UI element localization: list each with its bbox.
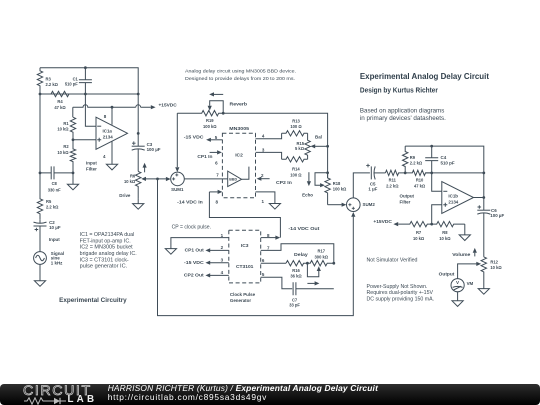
wire R18 to SUM2 <box>328 204 342 206</box>
pin 1 IC3 <box>171 233 229 249</box>
note analog delay description <box>185 69 296 81</box>
label -15 VDC pin3 <box>184 260 205 265</box>
svg-text:R19: R19 <box>206 118 214 123</box>
arrow signal direction echo <box>307 172 311 186</box>
svg-text:510 pF: 510 pF <box>65 82 78 87</box>
wire R2 to ground <box>72 173 74 184</box>
op-amp IC1a <box>96 107 128 164</box>
label C5 polarity <box>366 164 370 168</box>
label R14 <box>290 167 302 178</box>
arrow +15VDC <box>151 105 156 109</box>
svg-text:-14 VDC In: -14 VDC In <box>177 199 203 204</box>
pin 4 IC3 <box>205 270 228 277</box>
svg-text:R12: R12 <box>490 259 498 264</box>
arrow signal direction drive <box>143 163 147 173</box>
pin 8 IC2 <box>209 190 222 205</box>
svg-text:IC3 = CT3101 clock-: IC3 = CT3101 clock- <box>80 257 129 263</box>
node junction IC1a output <box>137 132 140 135</box>
svg-text:Experimental Circuitry: Experimental Circuitry <box>59 297 127 304</box>
note not simulator verified <box>367 257 418 263</box>
arrow into SUM2 bottom <box>351 212 355 217</box>
svg-text:R7: R7 <box>416 230 422 235</box>
svg-text:Input: Input <box>49 237 60 242</box>
wire reverb to SUM1 <box>176 113 178 167</box>
resistor R2 <box>70 140 75 173</box>
node junction R18 wiper rail <box>326 171 329 174</box>
wire R6 to ground <box>137 199 139 204</box>
wire IC1b output <box>474 197 484 199</box>
resistor R9 <box>403 146 408 173</box>
pin 5 IC3 <box>261 272 293 289</box>
node junction output <box>482 196 485 199</box>
resistor R11 <box>385 170 405 175</box>
node junction feedback <box>137 93 140 96</box>
svg-text:2: 2 <box>261 173 264 178</box>
svg-text:2.2 kΩ: 2.2 kΩ <box>386 183 399 188</box>
svg-text:4: 4 <box>103 154 106 159</box>
IC U2 MN3005 box <box>222 133 255 197</box>
svg-text:+15VDC: +15VDC <box>159 103 178 108</box>
wiper R6 <box>141 177 166 181</box>
svg-text:2.2 kΩ: 2.2 kΩ <box>46 205 59 210</box>
capacitor C2 <box>34 220 47 252</box>
wire -14VDC net <box>209 192 280 238</box>
arrow signal direction volume <box>473 248 477 257</box>
svg-text:Power-Supply Not Shown.: Power-Supply Not Shown. <box>367 284 428 290</box>
capacitor C6 <box>477 210 490 257</box>
pin 1 IC2 <box>256 192 275 204</box>
svg-text:IC3: IC3 <box>241 243 249 249</box>
pin 4 IC1a <box>103 154 106 159</box>
svg-text:IC1a: IC1a <box>103 129 113 134</box>
svg-text:1 kHz: 1 kHz <box>51 261 63 266</box>
pin 2 IC2 <box>257 173 270 181</box>
resistor R8 <box>432 221 465 226</box>
svg-text:36 kΩ: 36 kΩ <box>290 274 302 279</box>
node junction R3 bottom <box>39 93 42 96</box>
svg-text:R4: R4 <box>57 99 63 104</box>
label Drive <box>119 193 131 198</box>
label R1 <box>57 121 69 132</box>
title Experimental Analog Delay Circuit <box>360 71 489 81</box>
svg-text:3: 3 <box>221 257 224 262</box>
svg-text:R6: R6 <box>130 173 136 178</box>
wiper R17 <box>307 263 321 277</box>
svg-text:CP1 Out: CP1 Out <box>185 248 205 253</box>
svg-text:R9: R9 <box>410 155 416 160</box>
svg-text:8: 8 <box>104 114 107 119</box>
svg-text:5 kΩ: 5 kΩ <box>295 146 305 151</box>
svg-text:10 kΩ: 10 kΩ <box>439 236 451 241</box>
svg-text:6: 6 <box>262 258 265 263</box>
capacitor C8 <box>40 166 73 179</box>
svg-text:R5: R5 <box>46 199 52 204</box>
label Bal <box>315 135 322 140</box>
wire output node right <box>426 172 484 174</box>
label C6 <box>490 208 504 218</box>
svg-text:Requires dual-polarity +-15V: Requires dual-polarity +-15V <box>367 290 434 296</box>
svg-text:IC2: IC2 <box>235 152 243 158</box>
footer bar <box>0 384 540 405</box>
svg-text:Designed to provide delays fro: Designed to provide delays from 20 to 20… <box>185 76 295 81</box>
pin 3 IC2 <box>256 148 282 160</box>
label C4 <box>441 155 455 165</box>
summer SUM1 <box>171 172 185 186</box>
svg-text:in primary devices' datasheets: in primary devices' datasheets. <box>360 115 446 122</box>
svg-text:100 µF: 100 µF <box>490 213 504 218</box>
svg-text:Bal: Bal <box>315 135 322 140</box>
svg-text:Filter: Filter <box>400 199 411 204</box>
label C6 polarity <box>478 205 482 209</box>
svg-text:33 pF: 33 pF <box>289 303 300 308</box>
wire plus input IC1b <box>432 205 442 224</box>
svg-text:CT3101: CT3101 <box>236 264 254 270</box>
svg-text:5: 5 <box>215 135 218 140</box>
svg-text:8: 8 <box>267 233 270 238</box>
resistor R13 <box>282 131 308 136</box>
svg-text:R8: R8 <box>442 230 448 235</box>
label VM <box>467 281 474 286</box>
label signal source <box>51 251 64 266</box>
wire top rail / feedback net <box>40 68 138 134</box>
svg-text:IC1 = OPA2134PA dual: IC1 = OPA2134PA dual <box>80 232 135 238</box>
arrow into SUM1 top <box>175 167 179 172</box>
label CP2 Out <box>184 273 204 278</box>
label IC1a <box>103 129 114 140</box>
label C2 polarity <box>35 228 39 232</box>
label +15VDC <box>159 103 178 108</box>
svg-text:Clock Pulse: Clock Pulse <box>230 292 256 297</box>
svg-text:Based on application diagrams: Based on application diagrams <box>360 107 444 114</box>
wire source to ground <box>39 264 41 280</box>
node junction R15 wiper rail <box>326 145 329 148</box>
svg-text:brigade analog delay IC.: brigade analog delay IC. <box>80 251 137 257</box>
node junction C4 top <box>430 145 433 148</box>
wiper R15 <box>310 144 327 148</box>
svg-text:BBD: BBD <box>229 177 237 181</box>
svg-text:Input: Input <box>86 160 97 165</box>
label Input Filter <box>86 160 97 171</box>
node junction feedback right <box>482 172 485 175</box>
label C3 polarity <box>132 141 136 145</box>
svg-text:3: 3 <box>262 148 265 153</box>
label R11 <box>386 178 399 189</box>
label IC1b <box>448 194 458 205</box>
svg-text:R13: R13 <box>292 118 300 123</box>
pin 7 IC3 <box>261 244 334 263</box>
svg-text:100 kΩ: 100 kΩ <box>333 187 347 192</box>
pin 4 IC2 <box>256 133 282 139</box>
arrow into SUM1 left <box>166 177 171 181</box>
arrow +15VDC bottom <box>393 222 398 226</box>
svg-text:10 kΩ: 10 kΩ <box>490 265 502 270</box>
node junction R19 wiper <box>222 112 225 115</box>
wire R8 to ground <box>464 224 466 235</box>
svg-text:47 kΩ: 47 kΩ <box>414 183 426 188</box>
svg-text:R1: R1 <box>63 121 69 126</box>
svg-text:FET-input op-amp IC.: FET-input op-amp IC. <box>80 238 131 244</box>
note based on datasheets <box>360 107 446 122</box>
wiper R18 <box>315 173 328 188</box>
ground input source <box>34 281 45 287</box>
node junction C4 bottom <box>430 172 433 175</box>
buffer BBD symbol <box>228 167 249 187</box>
wire dry path to SUM2 <box>158 179 354 316</box>
pin 2 IC3 <box>205 245 228 253</box>
label C7 <box>289 298 300 308</box>
label Output bottom <box>439 272 455 277</box>
CircuitLab logo LAB <box>68 396 98 404</box>
wire SUM2 output <box>353 173 370 198</box>
svg-text:pulse generator IC.: pulse generator IC. <box>80 264 128 270</box>
svg-text:2134: 2134 <box>103 135 113 140</box>
CircuitLab logo text <box>23 386 92 397</box>
wire left column down <box>39 94 41 173</box>
CircuitLab logo resistor-diode glyph <box>24 397 70 405</box>
label R15 <box>295 141 305 151</box>
svg-text:R3: R3 <box>46 76 52 81</box>
label -15 VDC pin5 <box>184 135 205 140</box>
wire output to C3 <box>137 133 139 146</box>
ground R12 <box>478 289 489 295</box>
svg-text:10 µF: 10 µF <box>49 225 61 230</box>
svg-text:4: 4 <box>221 270 224 275</box>
capacitor C3 <box>132 146 145 171</box>
resistor R3 <box>37 68 42 94</box>
IC U3 CT3101 box <box>229 230 261 283</box>
node junction R17 right <box>332 262 335 265</box>
svg-text:Volume: Volume <box>452 252 471 257</box>
node junction C8 right <box>72 172 75 175</box>
label R2 <box>57 144 69 155</box>
svg-text:+15VDC: +15VDC <box>373 219 392 224</box>
svg-text:IC1b: IC1b <box>448 194 458 199</box>
ground IC2 pin1 <box>269 204 280 210</box>
svg-text:10 kΩ: 10 kΩ <box>57 127 69 132</box>
svg-text:-14 VDC Out: -14 VDC Out <box>288 226 320 231</box>
svg-text:Output: Output <box>439 272 455 277</box>
wire V+ rail with hops <box>73 105 151 117</box>
label R10 <box>414 178 426 189</box>
label +15VDC bottom <box>373 219 392 224</box>
arrow into SUM2 left <box>342 203 347 207</box>
footer title text <box>108 384 378 393</box>
svg-text:R14: R14 <box>292 167 300 172</box>
meter VM <box>451 279 464 292</box>
svg-text:Generator: Generator <box>230 298 251 303</box>
svg-text:Experimental Analog Delay Circ: Experimental Analog Delay Circuit <box>360 71 489 81</box>
svg-text:R10: R10 <box>416 178 424 183</box>
wiper R12 <box>458 262 482 279</box>
label R9 <box>410 155 423 166</box>
summer SUM2 <box>347 198 361 212</box>
label -14 VDC Out <box>288 226 320 231</box>
svg-text:2.2 kΩ: 2.2 kΩ <box>410 161 423 166</box>
wire mid node (R4 row) <box>40 93 138 95</box>
svg-text:10 kΩ: 10 kΩ <box>57 150 69 155</box>
svg-text:Filter: Filter <box>86 166 97 171</box>
wire feedback to inverting input <box>85 94 96 126</box>
svg-text:8: 8 <box>215 199 218 204</box>
svg-text:R18: R18 <box>333 181 341 186</box>
svg-text:Delay: Delay <box>294 252 308 257</box>
capacitor C1 <box>79 68 92 94</box>
svg-text:100 kΩ: 100 kΩ <box>203 124 217 129</box>
label R18 <box>333 181 347 192</box>
node junction dry tap <box>156 178 159 181</box>
capacitor C5 <box>371 166 385 179</box>
note CP clock pulse <box>172 225 211 231</box>
label Reverb <box>230 101 248 106</box>
node junction R7 R8 <box>430 223 433 226</box>
resistor R4 <box>40 91 85 96</box>
svg-text:7: 7 <box>216 173 219 178</box>
svg-text:330 nF: 330 nF <box>48 187 61 192</box>
label Clock Pulse Generator <box>230 292 256 303</box>
node junction C8 left <box>39 172 42 175</box>
wire to non-inverting input <box>73 139 96 141</box>
svg-text:Echo: Echo <box>302 193 313 198</box>
svg-text:4: 4 <box>262 134 265 139</box>
label C5 <box>368 181 377 191</box>
node junction R16 R17 <box>306 262 309 265</box>
label R17 <box>315 249 329 260</box>
svg-text:CP = clock pulse.: CP = clock pulse. <box>172 225 211 231</box>
label Output Filter <box>400 193 415 204</box>
pin 7 IC2 <box>216 173 219 178</box>
node junction C1 bottom <box>84 93 87 96</box>
svg-text:Analog delay circuit using MN3: Analog delay circuit using MN3005 BBD de… <box>185 69 296 74</box>
potentiometer R12 <box>481 257 486 289</box>
svg-text:1: 1 <box>221 233 224 238</box>
label C3 <box>147 142 161 152</box>
label CP1 In <box>197 154 212 159</box>
svg-text:Output: Output <box>400 193 415 198</box>
svg-text:2.2 kΩ: 2.2 kΩ <box>46 82 59 87</box>
arrow signal direction reverb <box>209 92 223 96</box>
label -14 VDC In <box>177 199 203 204</box>
wire reverb rail <box>223 113 327 178</box>
label R7 <box>413 230 425 241</box>
wire minus input IC1b <box>432 173 442 191</box>
label R16 <box>290 268 302 279</box>
svg-text:-15 VDC: -15 VDC <box>184 260 205 265</box>
resistor R7 <box>398 221 432 226</box>
label Echo <box>302 193 313 198</box>
wire feedback top <box>405 146 484 210</box>
op-amp IC1b <box>442 182 474 214</box>
ground R2 <box>67 184 78 190</box>
resistor R1 <box>70 117 75 140</box>
svg-text:R2: R2 <box>63 144 69 149</box>
wire SUM1 to IC2 pin7 <box>184 178 227 180</box>
potentiometer R18 <box>325 173 330 205</box>
node junction pin8 <box>111 106 114 109</box>
note IC list <box>80 232 137 270</box>
svg-text:510 pF: 510 pF <box>441 160 455 165</box>
svg-text:R16: R16 <box>292 268 300 273</box>
capacitor C7 <box>293 282 334 295</box>
label R8 <box>439 230 451 241</box>
svg-text:6: 6 <box>215 160 218 165</box>
wiper R19 <box>208 101 224 114</box>
label SUM2 <box>363 202 376 207</box>
pin 6 IC2 <box>210 150 222 165</box>
label CP2 In <box>276 180 292 185</box>
node junction R1 R2 <box>72 138 75 141</box>
svg-text:R17: R17 <box>318 249 326 254</box>
svg-text:-15 VDC: -15 VDC <box>184 135 205 140</box>
source V1 signal <box>34 252 47 265</box>
label CP1 Out <box>185 248 205 253</box>
subtitle Design by Kurtus Richter <box>360 88 438 95</box>
capacitor C4 <box>425 146 438 173</box>
svg-text:Not Simulator Verified: Not Simulator Verified <box>367 257 418 263</box>
wire VM to ground <box>457 292 459 301</box>
label C2 <box>49 220 61 230</box>
ground IC3 pin1 <box>165 249 176 255</box>
svg-text:1: 1 <box>261 199 264 204</box>
svg-text:100 Ω: 100 Ω <box>290 172 302 177</box>
node junction R11 R10 R9 <box>404 172 407 175</box>
svg-text:CP2 Out: CP2 Out <box>184 273 204 278</box>
label R5 <box>46 199 59 210</box>
resistor R14 <box>282 157 308 162</box>
footer url <box>108 393 267 402</box>
label Delay <box>294 252 308 257</box>
potentiometer R6 <box>136 171 141 198</box>
potentiometer R17 <box>307 261 333 266</box>
label IC3 <box>241 243 249 249</box>
arrow signal direction clock <box>307 281 319 285</box>
svg-text:IC2 = MN3005 bucket: IC2 = MN3005 bucket <box>80 245 134 251</box>
pin 8 IC1a <box>104 114 107 119</box>
pin 3 IC3 <box>205 257 228 265</box>
svg-text:DC supply providing 150 mA.: DC supply providing 150 mA. <box>367 296 435 302</box>
label MN3005 <box>229 126 249 132</box>
node junction C1 top <box>84 66 87 69</box>
svg-text:Reverb: Reverb <box>230 101 248 106</box>
svg-text:100 Ω: 100 Ω <box>290 124 302 129</box>
resistor R10 <box>405 170 432 175</box>
ground R8 <box>459 235 470 241</box>
label R4 <box>54 99 66 110</box>
svg-text:7: 7 <box>267 245 270 250</box>
label R6 <box>124 173 136 184</box>
svg-text:10 kΩ: 10 kΩ <box>413 236 425 241</box>
pin 8 IC3 <box>261 233 281 240</box>
svg-text:SUM1: SUM1 <box>171 187 184 192</box>
potentiometer R15 <box>305 133 310 159</box>
label CT3101 <box>236 264 254 270</box>
resistor R16 <box>286 261 307 266</box>
pin 6 IC3 <box>261 258 286 263</box>
ground IC1a pin4 <box>106 164 117 170</box>
svg-text:Drive: Drive <box>119 193 131 198</box>
svg-text:C1: C1 <box>73 76 79 81</box>
svg-text:CP2 In: CP2 In <box>276 180 292 185</box>
ground VM <box>452 301 463 307</box>
label R13 <box>290 118 302 129</box>
svg-text:SUM2: SUM2 <box>363 202 376 207</box>
label R3 <box>46 76 59 87</box>
svg-text:Design by Kurtus Richter: Design by Kurtus Richter <box>360 88 438 95</box>
label Volume <box>452 252 471 257</box>
svg-text:2: 2 <box>221 245 224 250</box>
svg-text:2134: 2134 <box>448 199 458 204</box>
svg-text:C8: C8 <box>52 181 58 186</box>
note power supply <box>367 284 435 303</box>
